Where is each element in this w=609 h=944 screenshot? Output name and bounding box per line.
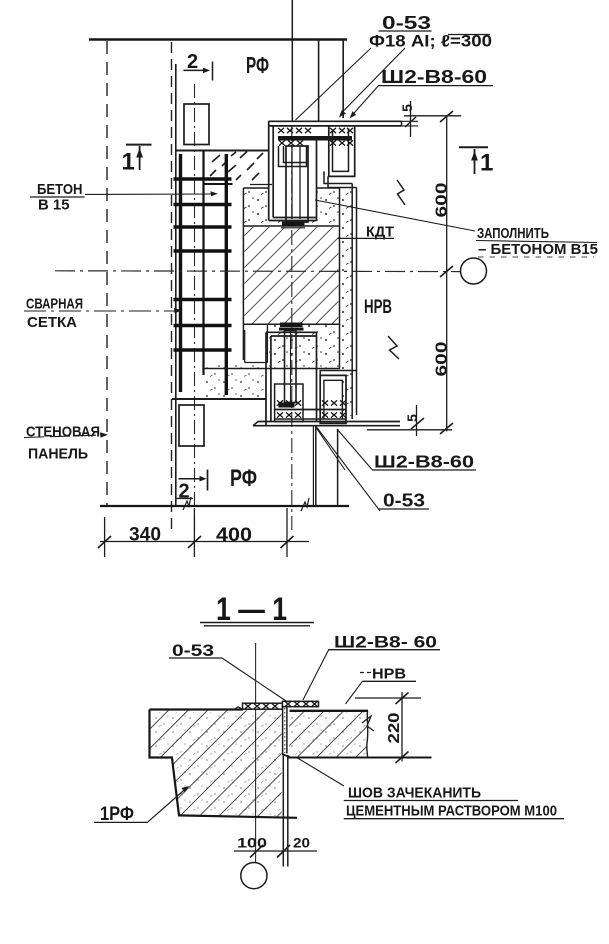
welded mesh bar middle (202, 150, 204, 375)
ext line to dim (367, 429, 452, 431)
dim 220 (355, 692, 421, 763)
anchor plate2 thick (278, 136, 352, 141)
svg-text:ПАНЕЛЬ: ПАНЕЛЬ (28, 446, 88, 463)
central block right edge (339, 188, 341, 369)
svg-text:ЦЕМЕНТНЫМ РАСТВОРОМ М100: ЦЕМЕНТНЫМ РАСТВОРОМ М100 (346, 803, 557, 820)
right block hatch fill (289, 712, 367, 757)
main horizontal axis dash-dot (55, 270, 460, 273)
section mark 2 bottom: line+arrow (179, 478, 203, 480)
embedded plate left part (243, 703, 283, 709)
hatched core top line (243, 225, 339, 227)
svg-text:СТЕНОВАЯ: СТЕНОВАЯ (26, 424, 100, 441)
leader 1rf (148, 788, 187, 822)
tick 5 bottom (411, 418, 424, 429)
frame left outer vertical (268, 121, 270, 220)
dim top extension (404, 115, 461, 117)
bolt inner line (290, 331, 292, 403)
svg-text:ЗАПОЛНИТЬ: ЗАПОЛНИТЬ (477, 226, 549, 242)
tick mid (188, 536, 201, 548)
svg-text:100: 100 (237, 835, 267, 851)
wire bottom line of plan (100, 505, 349, 507)
svg-text:0-53: 0-53 (172, 641, 214, 660)
svg-text:НРВ: НРВ (364, 297, 392, 318)
step above channel (320, 371, 356, 376)
svg-text:Ш2-В8- 60: Ш2-В8- 60 (334, 633, 437, 652)
plate right edge vertical (316, 332, 318, 421)
cup outline (275, 384, 303, 422)
svg-text:600: 600 (434, 182, 451, 217)
right block speckles (290, 712, 366, 756)
svg-text:Ш2-В8-60: Ш2-В8-60 (374, 452, 474, 472)
embedded plate right part (282, 701, 318, 706)
svg-text:РФ: РФ (230, 465, 257, 492)
frame left inner vertical (272, 126, 274, 218)
hatch band bottom line (250, 184, 272, 186)
leader 0-53 bottom (317, 427, 381, 511)
washer tick (281, 227, 305, 229)
leader L2 to channel (341, 48, 406, 114)
left concrete block top edge (176, 150, 269, 152)
left block upper band sparse strokes (210, 152, 263, 181)
upper small rect (184, 104, 209, 145)
setka leader dashed (24, 310, 176, 312)
lower small rect (179, 405, 204, 446)
mesh rung 1 (174, 177, 232, 181)
right channel inner (333, 129, 349, 171)
svg-text:Ф18 АI; ℓ=300: Ф18 АI; ℓ=300 (369, 33, 492, 51)
anchor plate lines (275, 409, 346, 411)
seam verticals below leg (282, 755, 284, 867)
svg-text:1 — 1: 1 — 1 (216, 591, 287, 627)
KDT leader line (338, 237, 394, 239)
central block upper speckle band (244, 189, 339, 225)
left block hatch fill (150, 710, 281, 817)
reference circle (461, 258, 487, 284)
right block bottom line + ext (288, 757, 432, 759)
right speckle strip (341, 188, 353, 416)
leg dotted core (284, 708, 286, 753)
zapolnit leader (315, 200, 475, 231)
tick top (440, 111, 453, 122)
break mark on bottom line left (183, 497, 191, 510)
welded mesh bar left (179, 154, 182, 392)
svg-text:Ш2-В8-60: Ш2-В8-60 (381, 67, 487, 87)
leader Sh2 section (303, 650, 329, 700)
tick left (98, 536, 111, 548)
mesh rung 6 (174, 324, 232, 328)
mesh rung 5 (174, 298, 232, 302)
section mark 1 right bar (459, 146, 488, 148)
central block left edge (242, 188, 244, 360)
BETON leader (85, 193, 214, 195)
svg-text:20: 20 (293, 835, 310, 851)
leader L1 to bolt (296, 48, 372, 120)
hatched core (244, 227, 338, 324)
BETON underline (30, 196, 85, 198)
svg-text:РФ: РФ (246, 52, 269, 78)
tick bottom (440, 423, 453, 434)
section mark 1 right arrow (474, 149, 476, 174)
ext vertical mid (193, 508, 195, 557)
wide plate left inner vertical (270, 336, 272, 422)
plate weld x marks (245, 701, 318, 708)
svg-text:0-53: 0-53 (383, 491, 425, 511)
leader NRV (346, 681, 363, 704)
long vertical right pair (351, 184, 353, 420)
lower channel outer (320, 375, 346, 423)
mesh rung 2 (174, 203, 232, 207)
surface line right part (290, 710, 369, 712)
ext vertical right (286, 508, 288, 557)
lower-left speckle zone (203, 370, 265, 398)
svg-text:БЕТОН: БЕТОН (37, 181, 83, 198)
svg-text:340: 340 (129, 525, 161, 546)
wire panel centerline dash-dot (194, 84, 196, 533)
bolt outer (286, 146, 308, 222)
section centerline vertical (255, 643, 257, 862)
right channel outer (329, 126, 355, 176)
step under channel (324, 171, 352, 183)
welded mesh bar right (225, 154, 228, 395)
leader Sh2 bottom b (316, 428, 345, 471)
leader 0-53 section (222, 658, 289, 703)
break mark on right edge (362, 716, 374, 731)
break mark on bottom line right (301, 498, 309, 511)
central block top edge right seg (317, 187, 341, 189)
wire top horizontal line (89, 38, 347, 40)
zapolnit dash underline (478, 256, 594, 258)
svg-text:600: 600 (434, 341, 451, 376)
lower connector weld X marks (277, 400, 346, 417)
wide plate top double (266, 331, 317, 333)
svg-text:5: 5 (404, 414, 420, 422)
top washer dark (280, 323, 303, 328)
dim 5 top vertical (410, 101, 412, 137)
dim line 340/400 (100, 541, 309, 543)
plate1 top double line (269, 120, 402, 122)
leg foot (282, 754, 289, 757)
svg-text:1: 1 (480, 150, 493, 177)
seam left vertical below connector (315, 426, 317, 506)
wire panel edge solid (175, 64, 177, 506)
plate start notch (234, 707, 243, 710)
section mark 1 left arrow (139, 146, 141, 170)
break mark upper right (397, 180, 405, 205)
svg-text:СЕТКА: СЕТКА (27, 314, 77, 331)
svg-text:2: 2 (187, 51, 198, 73)
wire left panel top edge vertical (318, 39, 320, 121)
wire panel edge dashed (171, 42, 173, 533)
svg-text:1: 1 (122, 149, 135, 176)
hatched core bottom line (243, 323, 339, 325)
seam right vertical below connector (337, 429, 339, 506)
central block top edge left seg (243, 187, 268, 189)
tick 5 top (405, 117, 416, 127)
right block right edge wavy (367, 711, 368, 758)
weld X marks row2 (279, 140, 285, 145)
leader Sh2 bottom a (337, 429, 372, 470)
cup outline (279, 146, 307, 167)
bottom circle (241, 863, 267, 889)
bolt head dark (279, 403, 295, 408)
upper connector weld X marks row1 (278, 128, 353, 146)
svg-text:НРВ: НРВ (372, 667, 406, 683)
dim 600 vertical line (446, 116, 448, 432)
section mark 2 top: line+arrow (183, 69, 206, 71)
mesh rung 4 (174, 249, 232, 253)
panel leader dashed (24, 435, 103, 438)
bottom plate double line (258, 421, 400, 423)
plate1 right end cap (401, 121, 403, 126)
svg-text:ШОВ ЗАЧЕКАНИТЬ: ШОВ ЗАЧЕКАНИТЬ (348, 785, 481, 802)
svg-text:400: 400 (216, 525, 252, 546)
mesh rung 7 (174, 348, 232, 352)
svg-text:2: 2 (179, 481, 190, 503)
dims 100 20 (234, 845, 317, 858)
svg-text:220: 220 (386, 713, 403, 744)
dim 5 bottom vertical (416, 405, 418, 436)
leader Sh2 top (351, 86, 379, 117)
lower speckle band bottom line (202, 368, 340, 370)
svg-text:5: 5 (399, 104, 415, 112)
ext vertical left (104, 517, 106, 557)
break mark lower right (388, 336, 399, 359)
bolt washer dark (282, 222, 305, 227)
wire left dashed axis (106, 41, 108, 506)
white notch edge lines (245, 325, 268, 363)
tick middle (440, 266, 453, 277)
surface line left part (150, 708, 244, 710)
plate right edge vertical (316, 136, 318, 221)
central block lower speckle band (202, 325, 339, 368)
wire joint centerline (291, 0, 293, 121)
lower channel inner (324, 380, 343, 419)
left block outline (150, 710, 298, 818)
partial rung line (205, 183, 233, 185)
leader shov (298, 758, 345, 786)
svg-text:0-53: 0-53 (382, 13, 431, 33)
svg-text:В 15: В 15 (38, 197, 70, 214)
svg-text:СВАРНАЯ: СВАРНАЯ (26, 296, 83, 313)
bottom plate left chamfer (253, 422, 258, 426)
bolt inner lines (291, 146, 293, 219)
svg-text:– БЕТОНОМ В15: – БЕТОНОМ В15 (478, 242, 598, 258)
bolt outer (285, 331, 297, 403)
section mark 2 bottom underline (176, 497, 193, 499)
section mark 1 left bar (126, 144, 152, 146)
tick right (281, 536, 294, 548)
wide plate left outer vertical (265, 332, 267, 425)
wire right panel top edge vertical (342, 39, 344, 118)
ext stubs to 5-dim (402, 120, 419, 122)
anchor leg (283, 707, 287, 755)
left block speckles (152, 712, 280, 816)
mesh rung 3 (174, 225, 232, 229)
frame bottom double (269, 220, 317, 222)
left concrete block bottom edge (172, 398, 266, 400)
